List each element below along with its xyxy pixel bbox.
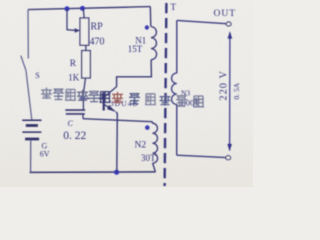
- transformer winding N2 30T: [135, 122, 158, 172]
- terminal OUT (top): [214, 9, 237, 26]
- capacitor C 0.22: [63, 99, 86, 142]
- wire top rail: [28, 7, 151, 10]
- wire R bottom to base node: [83, 78, 86, 98]
- wire secondary top to OUT terminal: [177, 20, 227, 23]
- watermark company text: [41, 88, 204, 107]
- wire left rail upper: [27, 10, 29, 59]
- switch S: [21, 56, 40, 80]
- resistor R 1K: [68, 45, 90, 82]
- wire secondary bottom: [177, 155, 227, 157]
- transformer winding N1 15T: [128, 7, 157, 60]
- node top rail wiper tap: [65, 6, 70, 11]
- wire switch to battery: [26, 71, 32, 120]
- node top rail RP top: [80, 6, 85, 11]
- wire C bottom to N2 top (feedback): [83, 119, 152, 122]
- terminal bottom: [226, 156, 231, 160]
- potentiometer RP 470: [67, 9, 105, 48]
- node emitter-ground junction: [114, 170, 119, 175]
- voltage arrow 220 V 0.5A: [219, 31, 242, 151]
- transformer winding N3 1800T: [172, 20, 201, 155]
- wire base: [83, 97, 104, 99]
- battery G 6V: [22, 120, 50, 158]
- wire emitter to ground: [116, 112, 117, 172]
- transformer T core: [165, 2, 177, 186]
- wire collector to N1 bottom: [117, 60, 152, 87]
- wire bottom rail: [30, 171, 156, 174]
- wire battery negative to bottom rail: [30, 139, 32, 172]
- node base junction: [80, 96, 85, 101]
- transistor VT 3DU4B: [104, 87, 139, 112]
